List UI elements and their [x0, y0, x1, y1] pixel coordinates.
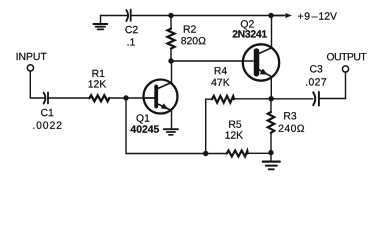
svg-text:C1: C1	[41, 108, 55, 119]
svg-text:Q1: Q1	[136, 114, 150, 125]
svg-text:.027: .027	[305, 78, 327, 89]
svg-text:12V: 12V	[318, 12, 337, 23]
svg-text:INPUT: INPUT	[16, 52, 48, 63]
svg-text:+: +	[298, 12, 304, 23]
svg-text:240Ω: 240Ω	[278, 124, 305, 135]
svg-text:–: –	[312, 12, 318, 23]
svg-text:.1: .1	[127, 37, 136, 48]
svg-text:12K: 12K	[88, 80, 107, 91]
svg-text:OUTPUT: OUTPUT	[327, 52, 368, 63]
svg-text:.0022: .0022	[32, 121, 63, 132]
svg-text:R1: R1	[92, 69, 106, 80]
svg-text:40245: 40245	[130, 125, 159, 136]
svg-text:R2: R2	[183, 25, 197, 36]
svg-text:C2: C2	[125, 25, 139, 36]
svg-text:C3: C3	[309, 64, 323, 75]
svg-text:47K: 47K	[211, 78, 230, 89]
svg-text:2N3241: 2N3241	[232, 30, 267, 41]
svg-text:R4: R4	[214, 66, 228, 77]
svg-text:820Ω: 820Ω	[181, 36, 206, 47]
svg-text:12K: 12K	[225, 131, 244, 142]
svg-text:R5: R5	[228, 120, 242, 131]
svg-text:9: 9	[304, 12, 310, 23]
svg-text:R3: R3	[283, 111, 297, 122]
